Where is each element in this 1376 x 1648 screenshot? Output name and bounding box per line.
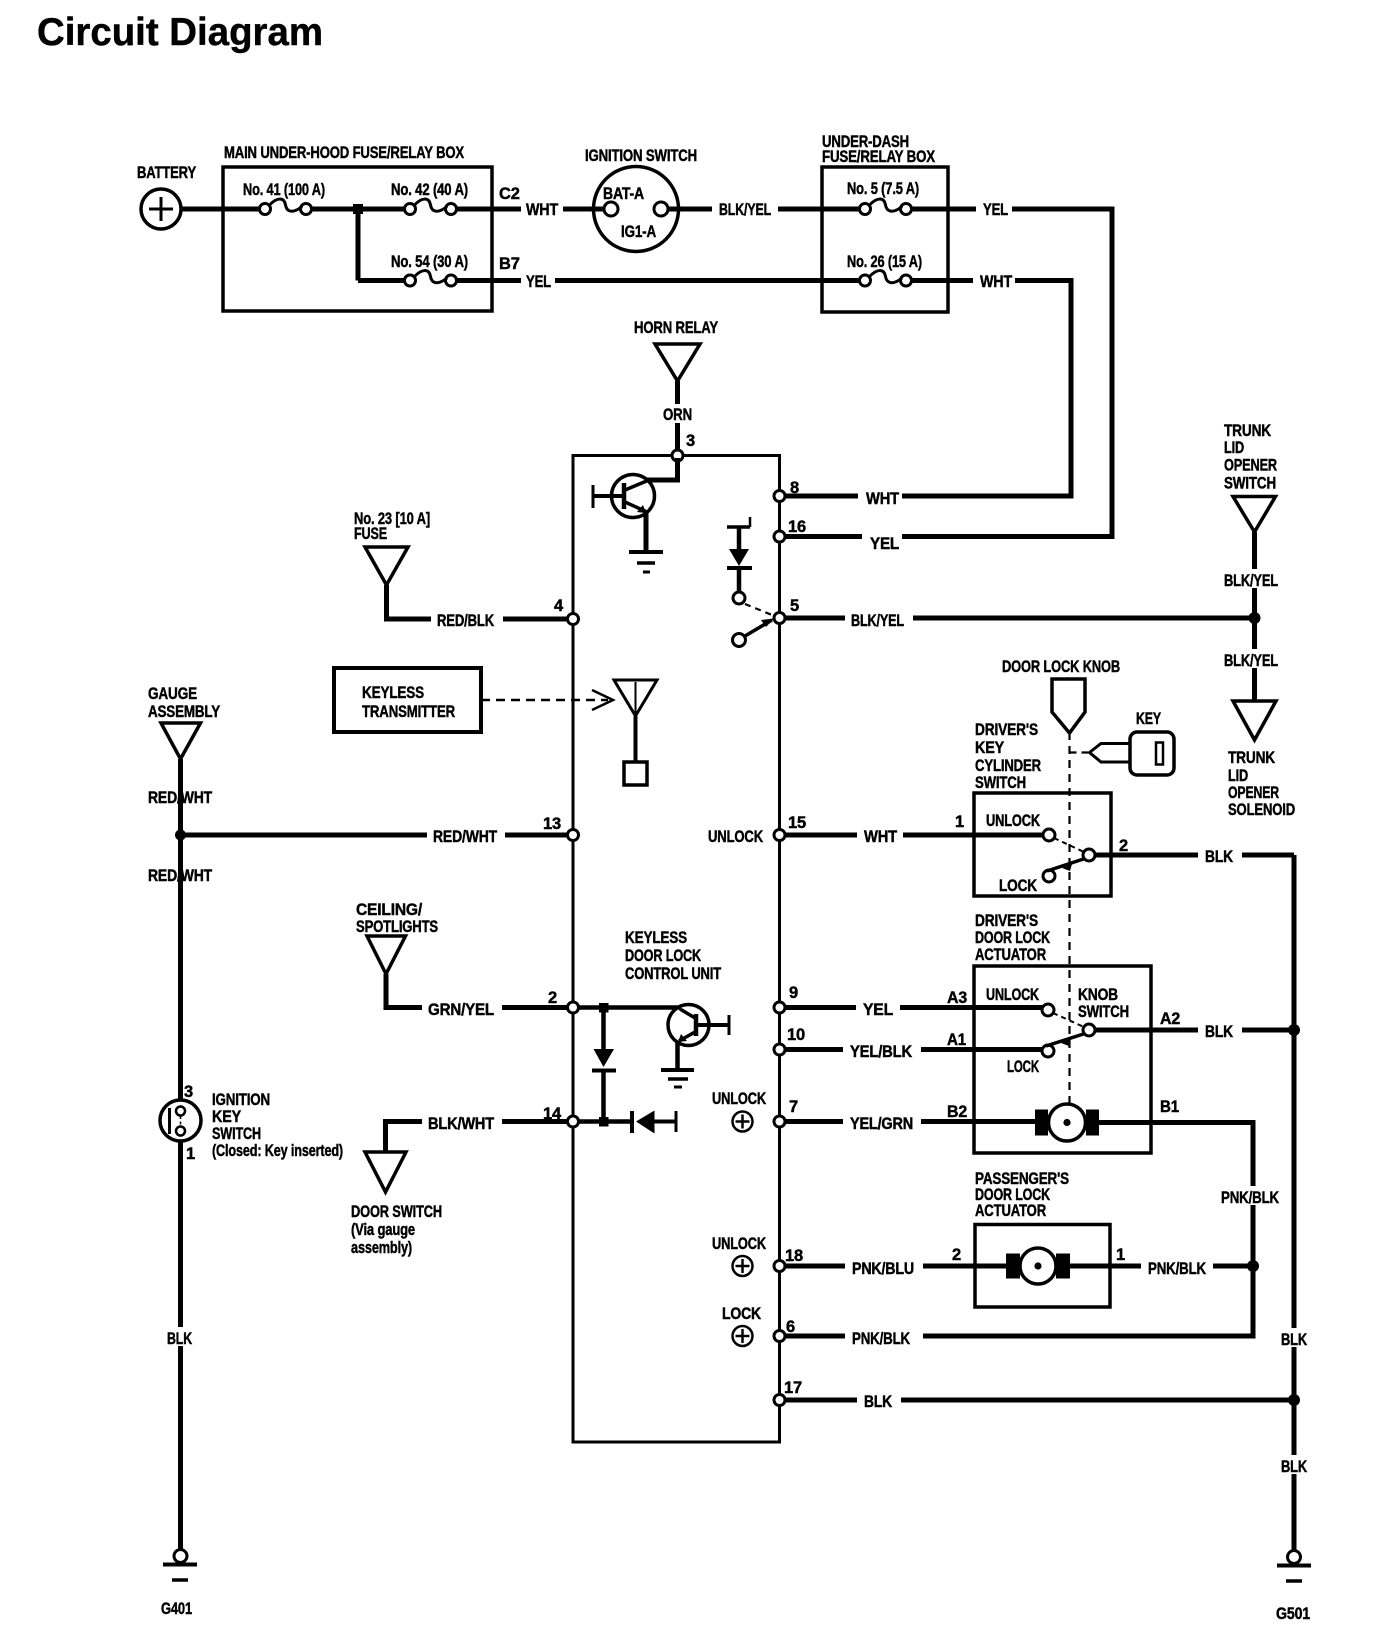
pin 7 UNLOCK bbox=[774, 1116, 785, 1127]
svg-text:4: 4 bbox=[554, 597, 564, 615]
wire pin 2 internal bbox=[578, 1005, 680, 1010]
wire junction to trunk solenoid BLK/YEL bbox=[1252, 618, 1257, 701]
svg-text:YEL/GRN: YEL/GRN bbox=[850, 1115, 913, 1133]
pin 13 bbox=[568, 830, 579, 841]
svg-text:GRN/YEL: GRN/YEL bbox=[428, 1001, 494, 1019]
pin 4 bbox=[568, 614, 579, 625]
svg-text:KEY: KEY bbox=[1136, 710, 1161, 728]
dashed knob line bbox=[1068, 732, 1070, 1103]
svg-text:TRUNK: TRUNK bbox=[1224, 422, 1271, 440]
svg-text:HORN RELAY: HORN RELAY bbox=[634, 319, 718, 337]
keyless transmitter box bbox=[334, 668, 481, 732]
svg-text:16: 16 bbox=[788, 518, 806, 536]
svg-text:A1: A1 bbox=[947, 1031, 966, 1049]
svg-text:UNLOCK: UNLOCK bbox=[712, 1090, 766, 1108]
svg-text:KEYLESS: KEYLESS bbox=[625, 929, 687, 947]
fuse No.23 bbox=[365, 547, 408, 585]
ceiling/spotlights bbox=[367, 936, 406, 974]
svg-text:(Closed: Key inserted): (Closed: Key inserted) bbox=[212, 1142, 343, 1160]
svg-text:TRANSMITTER: TRANSMITTER bbox=[362, 703, 455, 721]
pin 9 bbox=[774, 1002, 785, 1013]
svg-text:DOOR SWITCH: DOOR SWITCH bbox=[351, 1203, 442, 1221]
svg-text:No. 26 (15 A): No. 26 (15 A) bbox=[847, 253, 922, 271]
node PNK/BLK junction bbox=[1247, 1260, 1259, 1272]
ground G501 bbox=[1277, 1551, 1311, 1582]
svg-text:UNLOCK: UNLOCK bbox=[986, 812, 1040, 830]
svg-text:SPOTLIGHTS: SPOTLIGHTS bbox=[356, 918, 438, 936]
ground (Q1 emitter) bbox=[629, 552, 663, 572]
svg-text:13: 13 bbox=[543, 815, 561, 833]
svg-text:B7: B7 bbox=[499, 255, 520, 273]
svg-text:Circuit Diagram: Circuit Diagram bbox=[37, 11, 323, 54]
svg-text:LID: LID bbox=[1228, 767, 1248, 785]
svg-text:LID: LID bbox=[1224, 439, 1244, 457]
key cylinder blade bbox=[1047, 859, 1085, 872]
svg-text:WHT: WHT bbox=[866, 490, 899, 508]
svg-text:No. 42 (40 A): No. 42 (40 A) bbox=[391, 181, 468, 199]
pin 6 LOCK bbox=[774, 1331, 785, 1342]
driver's key cylinder switch box bbox=[974, 793, 1111, 896]
diode D2 bbox=[601, 1008, 606, 1050]
trunk lid opener switch bbox=[1233, 497, 1276, 533]
svg-text:IGNITION SWITCH: IGNITION SWITCH bbox=[585, 147, 697, 165]
svg-text:2: 2 bbox=[1119, 837, 1128, 855]
wire pin 9 YEL to actuator A3 bbox=[785, 1005, 1043, 1010]
wire B7 YEL to under-dash box bbox=[492, 278, 822, 283]
svg-text:1: 1 bbox=[186, 1145, 195, 1163]
junction node in main box bbox=[353, 204, 363, 214]
svg-text:5: 5 bbox=[790, 597, 799, 615]
svg-text:(Via gauge: (Via gauge bbox=[351, 1221, 415, 1239]
keyless door lock control unit box bbox=[573, 456, 780, 1443]
svg-text:GAUGE: GAUGE bbox=[148, 685, 197, 703]
svg-text:YEL/BLK: YEL/BLK bbox=[850, 1043, 912, 1061]
svg-text:IG1-A: IG1-A bbox=[621, 223, 656, 241]
pin 18 UNLOCK bbox=[774, 1261, 785, 1272]
svg-text:DOOR LOCK KNOB: DOOR LOCK KNOB bbox=[1002, 658, 1120, 676]
main under-hood fuse/relay box bbox=[223, 167, 492, 311]
node D2 top bbox=[599, 1003, 609, 1013]
svg-text:LOCK: LOCK bbox=[999, 877, 1037, 895]
fuse No.54 (30 A) bbox=[405, 271, 493, 286]
svg-text:SWITCH: SWITCH bbox=[975, 774, 1026, 792]
svg-text:FUSE/RELAY BOX: FUSE/RELAY BOX bbox=[822, 148, 935, 166]
svg-text:OPENER: OPENER bbox=[1224, 457, 1277, 475]
wire pin 17 BLK to right bus bbox=[785, 1398, 1294, 1403]
wire key cylinder pin 2 BLK bbox=[1095, 853, 1294, 858]
horn relay bbox=[655, 344, 700, 381]
fuse No.42 (40 A) bbox=[405, 199, 493, 214]
svg-text:RED/WHT: RED/WHT bbox=[148, 867, 212, 885]
svg-text:1: 1 bbox=[1116, 1246, 1125, 1264]
diode D1 with switch to pin 5 bbox=[727, 517, 774, 647]
svg-text:YEL: YEL bbox=[863, 1001, 893, 1019]
pin 17 bbox=[774, 1395, 785, 1406]
node A2/right bus bbox=[1288, 1024, 1300, 1036]
svg-text:BLK/YEL: BLK/YEL bbox=[719, 201, 771, 219]
svg-text:FUSE: FUSE bbox=[354, 525, 387, 543]
trunk lid opener solenoid bbox=[1233, 701, 1276, 740]
svg-text:BLK: BLK bbox=[1205, 1023, 1233, 1041]
wire horn relay ORN to pin 3 bbox=[675, 381, 680, 450]
svg-text:UNLOCK: UNLOCK bbox=[986, 986, 1039, 1004]
svg-text:SWITCH: SWITCH bbox=[1078, 1003, 1129, 1021]
node pin17/right bus bbox=[1288, 1394, 1300, 1406]
svg-text:UNLOCK: UNLOCK bbox=[708, 828, 763, 846]
svg-text:BLK: BLK bbox=[1281, 1458, 1307, 1476]
svg-text:YEL: YEL bbox=[870, 535, 899, 553]
svg-text:No. 5 (7.5 A): No. 5 (7.5 A) bbox=[847, 180, 919, 198]
pin 5 bbox=[774, 613, 785, 624]
svg-text:PNK/BLK: PNK/BLK bbox=[1221, 1189, 1279, 1207]
svg-text:DRIVER'S: DRIVER'S bbox=[975, 721, 1038, 739]
knob switch blade bbox=[1046, 1034, 1085, 1047]
svg-text:18: 18 bbox=[785, 1247, 803, 1265]
svg-text:1: 1 bbox=[955, 813, 964, 831]
svg-text:ACTUATOR: ACTUATOR bbox=[975, 1202, 1046, 1220]
gauge assembly bbox=[161, 723, 201, 759]
svg-text:DOOR LOCK: DOOR LOCK bbox=[625, 947, 701, 965]
junction node trunk bbox=[1249, 612, 1261, 624]
svg-text:ORN: ORN bbox=[663, 406, 692, 424]
svg-text:9: 9 bbox=[789, 984, 798, 1002]
svg-text:BLK: BLK bbox=[167, 1330, 192, 1348]
svg-text:15: 15 bbox=[788, 814, 806, 832]
svg-text:LOCK: LOCK bbox=[1007, 1058, 1039, 1076]
wire YEL from under-dash box down to pin 16 bbox=[784, 209, 1112, 537]
wire pin 10 YEL/BLK to actuator A1 bbox=[785, 1047, 1043, 1052]
svg-text:KEYLESS: KEYLESS bbox=[362, 684, 424, 702]
svg-text:WHT: WHT bbox=[864, 828, 897, 846]
svg-text:CYLINDER: CYLINDER bbox=[975, 757, 1041, 775]
svg-text:YEL: YEL bbox=[526, 273, 551, 291]
svg-text:2: 2 bbox=[548, 989, 557, 1007]
wire pin 7 YEL/GRN to actuator B2 bbox=[785, 1119, 1035, 1124]
svg-text:assembly): assembly) bbox=[351, 1239, 412, 1257]
svg-text:LOCK: LOCK bbox=[722, 1305, 761, 1323]
svg-text:BLK: BLK bbox=[1281, 1331, 1307, 1349]
svg-text:PNK/BLU: PNK/BLU bbox=[852, 1260, 914, 1278]
fuse No.41 (100 A) bbox=[260, 199, 407, 214]
wire battery to main fuse box bbox=[181, 207, 262, 212]
ground G401 bbox=[163, 1550, 197, 1581]
wire pin 5 BLK/YEL to trunk junction bbox=[785, 616, 1255, 621]
svg-text:8: 8 bbox=[790, 479, 799, 497]
wire gauge assembly RED/WHT down bbox=[178, 759, 183, 835]
wire C2 WHT to ignition switch bbox=[492, 207, 604, 212]
svg-text:14: 14 bbox=[543, 1105, 562, 1123]
wire pin 18 PNK/BLU to passenger actuator bbox=[785, 1264, 1006, 1269]
svg-text:3: 3 bbox=[184, 1083, 193, 1101]
knob switch contacts bbox=[1042, 1004, 1054, 1016]
wire ceiling GRN/YEL to pin 2 bbox=[386, 974, 569, 1008]
svg-text:7: 7 bbox=[789, 1098, 798, 1116]
svg-text:CEILING/: CEILING/ bbox=[356, 901, 423, 919]
wire pin 6 PNK/BLK to right bbox=[785, 1266, 1253, 1336]
pin 2 bbox=[568, 1002, 579, 1013]
svg-text:DOOR LOCK: DOOR LOCK bbox=[975, 929, 1050, 947]
wire fuse 23 RED/BLK to pin 4 bbox=[387, 585, 570, 619]
wire trunk switch BLK/YEL down bbox=[1252, 532, 1257, 618]
dashed signal arrow bbox=[481, 699, 608, 702]
svg-text:SOLENOID: SOLENOID bbox=[1228, 801, 1295, 819]
svg-text:B1: B1 bbox=[1160, 1098, 1179, 1116]
ground (Q2 emitter) bbox=[661, 1070, 694, 1087]
svg-text:17: 17 bbox=[784, 1379, 802, 1397]
svg-text:RED/WHT: RED/WHT bbox=[433, 828, 497, 846]
svg-text:MAIN UNDER-HOOD FUSE/RELAY BOX: MAIN UNDER-HOOD FUSE/RELAY BOX bbox=[224, 144, 464, 162]
svg-text:ASSEMBLY: ASSEMBLY bbox=[148, 703, 220, 721]
driver's door lock actuator box bbox=[974, 966, 1151, 1153]
svg-text:G501: G501 bbox=[1276, 1605, 1310, 1623]
pin 14 bbox=[568, 1116, 579, 1127]
svg-text:PNK/BLK: PNK/BLK bbox=[1148, 1260, 1206, 1278]
wire actuator A2 BLK to right bus bbox=[1095, 1028, 1294, 1033]
fuse No.26 (15 A) bbox=[822, 271, 948, 286]
node D2 bottom bbox=[599, 1117, 609, 1127]
svg-text:BAT-A: BAT-A bbox=[603, 185, 644, 203]
svg-text:KNOB: KNOB bbox=[1078, 986, 1118, 1004]
receiver antenna bbox=[614, 680, 657, 785]
svg-text:BLK: BLK bbox=[864, 1393, 892, 1411]
svg-text:TRUNK: TRUNK bbox=[1228, 749, 1275, 767]
svg-text:A2: A2 bbox=[1160, 1010, 1180, 1028]
svg-text:PNK/BLK: PNK/BLK bbox=[852, 1330, 910, 1348]
fuse No.5 (7.5 A) bbox=[822, 199, 948, 214]
svg-text:No. 41 (100 A): No. 41 (100 A) bbox=[243, 181, 325, 199]
svg-text:BATTERY: BATTERY bbox=[137, 164, 196, 182]
door switch bbox=[365, 1152, 406, 1192]
wire RED/WHT to pin 13 bbox=[181, 833, 570, 838]
transistor Q2 bbox=[668, 1005, 729, 1071]
svg-text:IGNITION: IGNITION bbox=[212, 1091, 270, 1109]
svg-text:BLK/YEL: BLK/YEL bbox=[1224, 652, 1278, 670]
svg-text:RED/BLK: RED/BLK bbox=[437, 612, 494, 630]
node gauge junction bbox=[175, 830, 186, 841]
wire door switch BLK/WHT to pin 14 bbox=[386, 1122, 570, 1153]
svg-text:CONTROL UNIT: CONTROL UNIT bbox=[625, 965, 721, 983]
svg-text:No. 54 (30 A): No. 54 (30 A) bbox=[391, 253, 468, 271]
wire key switch BLK down to G401 bbox=[178, 1141, 183, 1551]
diode D3 (pin 14 wire) bbox=[578, 1119, 633, 1124]
battery bbox=[141, 189, 181, 229]
passenger's door lock actuator box bbox=[975, 1225, 1110, 1308]
svg-text:KEY: KEY bbox=[212, 1108, 241, 1126]
pin 8 bbox=[774, 491, 785, 502]
svg-text:OPENER: OPENER bbox=[1228, 784, 1279, 802]
wire RED/WHT continues down bbox=[178, 835, 183, 1100]
pin 16 bbox=[774, 531, 785, 542]
svg-text:10: 10 bbox=[787, 1026, 805, 1044]
svg-text:BLK/YEL: BLK/YEL bbox=[1224, 572, 1278, 590]
svg-text:2: 2 bbox=[952, 1246, 961, 1264]
svg-text:UNLOCK: UNLOCK bbox=[712, 1235, 766, 1253]
ignition switch bbox=[594, 167, 679, 252]
svg-text:WHT: WHT bbox=[980, 273, 1012, 291]
right BLK bus wire bbox=[1292, 855, 1297, 1551]
pin 15 UNLOCK bbox=[774, 830, 785, 841]
pin 3 node bbox=[672, 450, 683, 461]
pin 10 bbox=[774, 1044, 785, 1055]
svg-text:SWITCH: SWITCH bbox=[212, 1125, 261, 1143]
svg-text:SWITCH: SWITCH bbox=[1224, 475, 1276, 493]
svg-text:BLK/WHT: BLK/WHT bbox=[428, 1115, 494, 1133]
svg-text:C2: C2 bbox=[499, 185, 520, 203]
svg-text:B2: B2 bbox=[947, 1103, 967, 1121]
svg-text:KEY: KEY bbox=[975, 739, 1004, 757]
svg-text:RED/WHT: RED/WHT bbox=[148, 789, 212, 807]
key cylinder contacts bbox=[1043, 829, 1055, 841]
transistor Q1 bbox=[593, 458, 678, 552]
wire WHT from under-dash box down to pin 8 bbox=[784, 281, 1071, 497]
svg-text:ACTUATOR: ACTUATOR bbox=[975, 946, 1046, 964]
wire branch down from junction bbox=[356, 209, 361, 281]
svg-text:A3: A3 bbox=[947, 989, 967, 1007]
driver's actuator motor bbox=[1035, 1104, 1099, 1141]
svg-text:DRIVER'S: DRIVER'S bbox=[975, 912, 1038, 930]
svg-text:BLK: BLK bbox=[1205, 848, 1233, 866]
svg-text:3: 3 bbox=[686, 432, 695, 450]
wire ignition switch to under-dash box BLK/YEL bbox=[668, 207, 822, 212]
svg-text:G401: G401 bbox=[161, 1600, 192, 1618]
svg-text:6: 6 bbox=[786, 1318, 795, 1336]
under-dash fuse/relay box bbox=[822, 167, 948, 312]
ignition key switch bbox=[160, 1100, 201, 1141]
svg-text:BLK/YEL: BLK/YEL bbox=[851, 612, 904, 630]
svg-text:YEL: YEL bbox=[983, 201, 1008, 219]
wire actuator B1 PNK/BLK down bbox=[1099, 1123, 1253, 1267]
door lock knob bbox=[1052, 679, 1085, 733]
key bbox=[1070, 732, 1175, 775]
passenger actuator motor bbox=[1006, 1248, 1070, 1284]
wire pin 15 WHT to key cylinder switch bbox=[785, 833, 1043, 838]
wire passenger pin 1 PNK/BLK to junction bbox=[1070, 1264, 1253, 1269]
svg-text:WHT: WHT bbox=[526, 201, 558, 219]
